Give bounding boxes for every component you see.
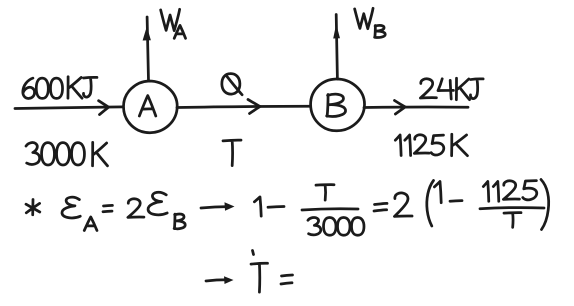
wire arrowhead: outlet <box>395 101 406 115</box>
wire: work output arrow line from A <box>147 17 148 81</box>
2 (coefficient) <box>128 199 144 218</box>
label Q <box>222 74 242 95</box>
minus 1 <box>268 205 284 209</box>
equals sign 3 <box>281 275 293 284</box>
wire arrowhead: A to B <box>248 100 260 114</box>
label W_A <box>161 9 180 30</box>
wire: line from A to B <box>177 106 310 107</box>
denominator T <box>504 213 521 228</box>
1 <box>254 197 261 216</box>
engine A circle <box>124 81 178 133</box>
denominator 3000 <box>308 217 321 234</box>
epsilon_B <box>148 192 167 215</box>
arrowhead W_B (filled) <box>333 24 340 39</box>
wire: work output arrow line from B <box>336 15 337 80</box>
label 1125 K <box>395 135 401 156</box>
epsilon_A <box>62 197 80 218</box>
label T (between engines) <box>223 140 241 166</box>
wire: outlet line from engine B <box>364 106 468 109</box>
equals sign 2 <box>374 203 387 211</box>
label B inside engine B <box>327 94 346 116</box>
implies arrow 1 <box>201 207 228 208</box>
asterisk <box>26 200 40 215</box>
T (answer) <box>251 263 268 292</box>
wire arrowhead: left inlet <box>99 101 109 115</box>
label 600 KJ <box>23 78 35 98</box>
1 (inside paren) <box>434 181 441 202</box>
equals sign 1 <box>103 205 112 211</box>
open parenthesis <box>427 181 434 227</box>
fraction 1125/T : numerator 1125 <box>483 181 488 201</box>
wire: left inlet line into engine A <box>15 107 123 109</box>
2 (factor) <box>394 193 412 217</box>
fraction bar 2 <box>480 208 544 209</box>
close parenthesis <box>541 180 549 230</box>
faint tick above T <box>253 251 254 255</box>
engine B circle <box>311 79 365 131</box>
label 3000 K <box>26 143 40 165</box>
minus 2 <box>450 199 462 202</box>
label A inside engine A <box>139 96 155 116</box>
implies arrow 2 <box>206 280 227 281</box>
fraction T/3000 : numerator T <box>316 185 334 200</box>
fraction bar 1 <box>302 209 358 210</box>
label 24 KJ <box>420 79 436 98</box>
label W_B <box>355 8 373 28</box>
arrowhead W_A (filled) <box>143 27 151 41</box>
